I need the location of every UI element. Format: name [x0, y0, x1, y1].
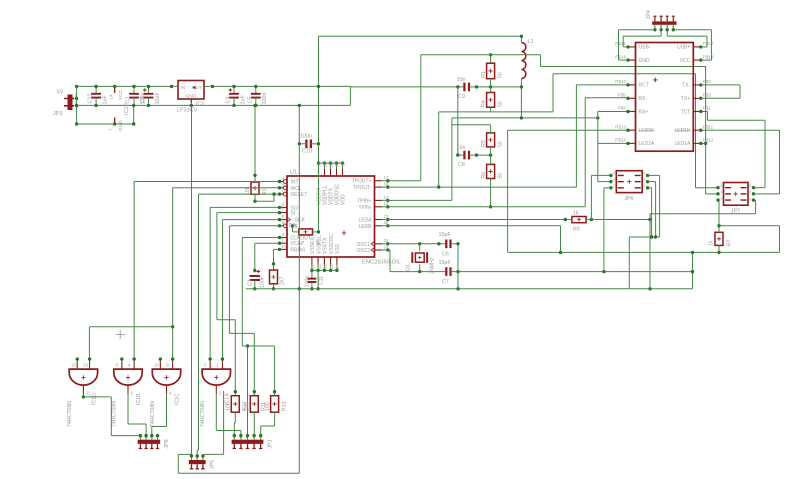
junction jp6 bus b	[654, 235, 657, 238]
gate IC1D body	[69, 369, 97, 385]
junction JP7 left pin	[716, 198, 719, 201]
junction	[254, 104, 257, 107]
gate IC1A input 2 junction	[208, 357, 211, 360]
junction JP7 right pin	[752, 186, 755, 189]
connector JP8 pin 3 post	[150, 444, 153, 449]
U1 pin 6 SO stub	[280, 206, 288, 208]
wire R7 top lead	[718, 200, 720, 232]
svg-text:P$5: P$5	[618, 93, 627, 98]
junction INT pin	[278, 180, 281, 183]
connector JP5 pin 3 junction	[201, 454, 204, 457]
junction C1	[253, 269, 256, 272]
wire VCC stub	[701, 59, 712, 61]
connector JP8 pin 1 junction	[139, 434, 142, 437]
resistor R3 origin	[488, 69, 492, 73]
svg-text:R12: R12	[281, 401, 287, 411]
junction R5 R6 mid	[489, 153, 492, 156]
svg-text:C3: C3	[140, 97, 146, 104]
svg-text:P$16: P$16	[615, 54, 626, 59]
U1 pin 1 VCAP stub	[280, 242, 288, 244]
wire R12 jog	[261, 425, 275, 427]
connector JP7 inner pin right	[741, 187, 747, 189]
capacitor C4 polarity +	[229, 88, 233, 92]
wire USB+ stub	[701, 46, 707, 48]
svg-text:11: 11	[86, 391, 91, 396]
wire CS	[229, 225, 279, 227]
connector JP6 inner pin left	[618, 174, 624, 176]
gate IC1C output pin 8 stub	[166, 385, 168, 393]
junction crystal top	[418, 242, 421, 245]
wire SO vertical	[209, 207, 211, 359]
gate IC1B input wire	[121, 359, 123, 361]
wire LEDB riser	[560, 226, 562, 253]
junction regulator gnd	[190, 104, 193, 107]
junction P$4	[626, 110, 629, 113]
U1 pin 16 TPOUT- stub	[375, 186, 383, 188]
wire OSC2 stub	[382, 249, 390, 251]
connector JP1 pin 4 wire	[253, 436, 255, 440]
svg-text:13: 13	[71, 363, 76, 368]
capacitor C2 lead	[133, 86, 135, 93]
U1 pin 10 RESET stub	[280, 193, 284, 195]
svg-text:C5: C5	[247, 97, 253, 104]
junction trunk C10v	[298, 287, 301, 290]
capacitor C12 lead	[95, 98, 97, 106]
wire VSSRX pin	[311, 265, 313, 271]
resistor R10 origin	[233, 402, 237, 406]
connector JP8 pin 1 post	[139, 444, 142, 449]
wire TPOUT-	[382, 186, 576, 188]
R1 origin	[304, 230, 308, 234]
connector JP1 pin 2 wire	[240, 436, 242, 440]
svg-text:IC1B: IC1B	[136, 393, 142, 405]
wire TPOUT- vertical	[575, 85, 577, 187]
junction R7 bottom	[717, 251, 720, 254]
wire C6 right lead	[451, 243, 459, 245]
junction JP4 pin 2	[659, 28, 662, 31]
gate IC1B input wire	[133, 359, 135, 361]
gate IC1B body	[114, 369, 142, 385]
svg-text:2k7: 2k7	[280, 277, 286, 285]
junction JP7 right pin	[752, 192, 755, 195]
block pin LED1K stub	[693, 129, 701, 131]
junction RBIAS pin	[278, 248, 281, 251]
svg-text:USB+: USB+	[677, 45, 690, 51]
junction C8 left	[456, 153, 459, 156]
svg-text:14: 14	[282, 244, 287, 249]
junction L1 at bias line	[520, 116, 523, 119]
svg-text:JP8: JP8	[164, 439, 170, 448]
wire JP7 pin3R horizontal	[650, 213, 756, 215]
wire C8 right lead	[469, 154, 491, 156]
connector JP1 pin 5 post	[259, 444, 262, 449]
junction pin OSC2	[386, 248, 389, 251]
wire CLKOUT vertical	[241, 238, 243, 347]
svg-text:10uF: 10uF	[260, 275, 266, 288]
wire R2 top	[254, 105, 256, 182]
junction VSS gnd	[316, 287, 319, 290]
U1 bottom pin VSSTX stub	[323, 257, 325, 265]
junction	[232, 85, 235, 88]
connector JP6 origin	[627, 179, 631, 183]
connector JP6 body	[616, 171, 642, 193]
wire WOL	[173, 187, 280, 189]
svg-text:TPIN+: TPIN+	[357, 198, 371, 204]
wire R6 bottom lead	[490, 179, 492, 207]
junction JP6 left pin	[609, 186, 612, 189]
wire VSS pin	[336, 265, 338, 271]
junction VSS	[335, 269, 338, 272]
wire INT vertical	[133, 182, 135, 360]
junction L1 bottom at bias rail	[520, 85, 523, 88]
gate IC1C input 9 junction	[171, 357, 174, 360]
svg-text:IC1C: IC1C	[175, 393, 181, 405]
junction L1 top	[520, 35, 523, 38]
U1 pin 5 WOL stub	[280, 187, 284, 189]
wire TPOUT+ step	[540, 55, 542, 67]
svg-text:C4: C4	[226, 97, 232, 104]
wire Q1 top lead	[419, 244, 421, 251]
wire R3 bottom lead	[490, 79, 492, 87]
resistor 2k7 body	[270, 270, 278, 284]
wire VDD pin	[342, 163, 344, 168]
svg-text:LED2A: LED2A	[639, 141, 656, 147]
wire C10 branch down	[298, 144, 300, 289]
svg-text:3: 3	[643, 178, 645, 182]
svg-text:TX-: TX-	[682, 83, 690, 89]
capacitor C12 lead	[95, 86, 97, 93]
svg-text:RCT: RCT	[639, 83, 649, 89]
svg-text:P$4: P$4	[618, 106, 627, 111]
wire TPOUT- vertical	[438, 112, 440, 187]
wire VSSTX pin	[323, 265, 325, 271]
wire bias rail right	[469, 86, 521, 88]
wire C10 left lead	[299, 143, 306, 145]
svg-text:L1: L1	[528, 39, 534, 45]
resistor R4 body	[487, 93, 495, 108]
connector JP8 bar	[138, 440, 161, 444]
svg-text:P$10: P$10	[615, 79, 626, 84]
svg-text:C11: C11	[319, 276, 325, 285]
wire ground trunk	[246, 288, 693, 290]
junction P$3	[699, 83, 702, 86]
junction OSC1 C6	[437, 242, 440, 245]
junction R2 at rail	[253, 104, 256, 107]
wire VSSOSC pin	[330, 265, 332, 271]
junction C9 right	[475, 85, 478, 88]
wire VDDTX pin	[330, 163, 332, 168]
wire decoupling vertical	[457, 87, 459, 155]
wire left vertical	[76, 86, 78, 124]
connector JP5 pin 3 wire	[202, 456, 204, 460]
gate IC1D input pin 12 stub	[89, 362, 91, 370]
U1 top pin VDD stub	[342, 169, 344, 177]
svg-text:SI: SI	[291, 211, 296, 217]
svg-text:1uF: 1uF	[240, 95, 246, 105]
gate IC1A input 1 junction	[221, 357, 224, 360]
junction LEDB tap	[559, 251, 562, 254]
R7 origin	[717, 237, 721, 241]
junction VDDPLL	[323, 161, 326, 164]
connector JP1 pin 5 wire	[260, 436, 262, 440]
resistor R7 body	[715, 232, 723, 245]
junction	[94, 85, 97, 88]
wire JP7 pin1R	[754, 187, 766, 189]
wire VDDPLL pin	[324, 163, 326, 168]
junction R2 top node	[253, 174, 256, 177]
wire VDD vertical	[318, 36, 320, 163]
wire JP6 pin2R vertical	[655, 182, 657, 237]
connector JP8 pin 4 wire	[157, 436, 159, 440]
svg-text:TPOUT-: TPOUT-	[353, 185, 372, 191]
junction JP6 right pin	[646, 186, 649, 189]
svg-text:C1: C1	[248, 279, 254, 286]
junction pin TPOUT-	[386, 185, 389, 188]
junction 2k7 gnd	[272, 287, 275, 290]
block pin TX- stub	[693, 84, 701, 86]
inductor L1	[521, 43, 526, 79]
svg-text:R8: R8	[573, 227, 580, 233]
wire R3 top lead	[490, 55, 492, 63]
wire R1 to CS	[292, 226, 294, 232]
junction R10 top	[234, 390, 237, 393]
block pin VCC stub	[693, 59, 701, 61]
wire R8 right lead	[586, 219, 591, 221]
connector JP7 inner pin left	[725, 187, 731, 189]
svg-text:1k: 1k	[573, 211, 579, 217]
wire IC1C out	[166, 394, 168, 427]
svg-text:TPIN-: TPIN-	[358, 205, 371, 211]
wire TX+	[701, 97, 740, 99]
connector JP5 pin 2 post	[196, 464, 199, 469]
junction P$2	[699, 97, 702, 100]
wire branch down	[779, 226, 781, 253]
junction CS pin	[278, 224, 281, 227]
junction JP1 pin3 branch	[246, 344, 249, 347]
wire JP7pin3R to gnd vertical	[649, 214, 651, 289]
wire CLKOUT	[242, 237, 279, 239]
svg-text:P$14: P$14	[615, 138, 626, 143]
svg-text:50: 50	[497, 72, 503, 78]
wire R5 top lead	[490, 125, 492, 133]
wire JP4 pin4 right	[673, 29, 711, 31]
wire TPIN-	[382, 206, 585, 208]
wire R10 top vertical	[234, 320, 236, 396]
capacitor C3 plates	[144, 94, 154, 98]
wire LEDB	[382, 225, 561, 227]
wire OSC2 long to right	[451, 271, 693, 273]
wire JP6 pin1 horizontal	[591, 174, 611, 176]
wire LED2K	[508, 129, 628, 131]
wire R7 bottom lead	[718, 245, 720, 252]
wire JP1 pin1 drop	[233, 423, 235, 436]
gate IC1A input wire	[221, 359, 223, 361]
junction VDD at rail	[317, 85, 320, 88]
block pin TCT stub	[693, 111, 701, 113]
wire RESET vertical	[198, 194, 200, 450]
connector JP1 pin 2 post	[239, 444, 242, 449]
svg-text:USB-: USB-	[639, 45, 651, 51]
svg-text:22: 22	[335, 162, 340, 167]
junction C1 gnd	[253, 287, 256, 290]
gate IC1C origin	[164, 375, 168, 379]
connector JP8 pin 4 junction	[156, 434, 159, 437]
wire C1 bottom lead	[254, 280, 256, 289]
wire VDD bus	[318, 162, 343, 164]
wire JP1 pin2 drop	[240, 431, 242, 436]
U1 pin 17 TPOUT+ stub	[375, 180, 383, 182]
wire step down at x350	[349, 86, 351, 105]
wire LEDA	[382, 219, 565, 221]
junction RESET pin	[278, 192, 281, 195]
U1 bottom pin VSSRX stub	[311, 257, 313, 265]
wire pin3L branch right	[719, 225, 780, 227]
U1 top pin VDDRX stub	[318, 169, 320, 177]
svg-text:1: 1	[749, 196, 751, 200]
svg-text:100: 100	[226, 402, 232, 411]
wire RBIAS resistor top	[273, 249, 275, 270]
junction C10 at rail	[298, 104, 301, 107]
junction C7 right	[456, 270, 459, 273]
wire OSC2 riser	[389, 250, 391, 272]
connector JP5 pin 1 wire	[191, 456, 193, 460]
svg-text:5: 5	[643, 172, 645, 176]
svg-text:TCT: TCT	[681, 109, 691, 115]
svg-text:14: 14	[108, 94, 113, 99]
crystal Q1	[412, 252, 427, 263]
wire IC1D out	[82, 394, 84, 397]
svg-text:U1: U1	[290, 170, 297, 176]
junction R8 right	[590, 218, 593, 221]
wire JP4 pin3 right	[667, 35, 707, 37]
svg-text:100k: 100k	[286, 223, 298, 229]
junction JP6 right pin	[646, 174, 649, 177]
junction VDDRX	[317, 161, 320, 164]
JP4 pin 1 post	[653, 16, 656, 21]
capacitor C3 lead	[148, 86, 150, 93]
svg-text:R1: R1	[317, 238, 323, 245]
wire TX loop	[739, 85, 741, 98]
gate IC1A output pin 3 stub	[215, 385, 217, 393]
wire VSS to gnd link	[317, 270, 319, 288]
wire JP3 pin2	[75, 98, 77, 100]
wire RX+ LED2A vertical	[597, 112, 599, 182]
wire R8 left lead	[565, 219, 572, 221]
junction VCC pin	[113, 85, 116, 88]
wire JP5 pin3 vertical	[223, 391, 225, 454]
connector JP3 5V input	[64, 95, 74, 111]
wire RX- vertical	[584, 98, 586, 207]
svg-text:2: 2	[720, 196, 722, 200]
svg-text:4: 4	[720, 190, 722, 194]
capacitor C5 lead	[255, 86, 257, 93]
svg-text:VCC: VCC	[680, 58, 691, 64]
svg-text:P$18: P$18	[703, 54, 714, 59]
wire to USB+ pin	[706, 36, 708, 47]
junction JP7 left pin	[716, 192, 719, 195]
svg-text:P$13: P$13	[615, 124, 626, 129]
connector JP1 pin 1 wire	[233, 436, 235, 440]
wire JP3 pin1	[75, 105, 77, 107]
svg-text:6: 6	[613, 172, 615, 176]
svg-text:25MHz: 25MHz	[430, 257, 436, 274]
wire OSC2 horizontal	[390, 271, 446, 273]
wire JP6 right bus	[629, 236, 659, 238]
gate IC1D output pin 11 stub	[82, 385, 84, 393]
svg-text:6: 6	[720, 184, 722, 188]
svg-text:P$1: P$1	[703, 106, 712, 111]
wire VCAP	[255, 242, 280, 244]
wire JP6 bus to gnd	[628, 237, 630, 289]
svg-text:19: 19	[317, 162, 322, 167]
svg-text:R4: R4	[481, 100, 487, 107]
wire RX+	[598, 111, 628, 113]
U1 top pin VDDPLL stub	[324, 169, 326, 177]
junction P$12	[699, 142, 702, 145]
junction riser tap	[691, 251, 694, 254]
junction rail after OUT	[211, 85, 214, 88]
junction riser top	[132, 104, 135, 107]
wire JP4 pin2 drop	[660, 30, 662, 36]
junction VCAP pin	[278, 242, 281, 245]
svg-text:R5: R5	[481, 140, 487, 147]
gate IC1C body	[152, 369, 180, 385]
wire Q1 bottom lead	[419, 264, 421, 271]
junction R4 top	[489, 85, 492, 88]
U1 pin 4 INT stub	[280, 181, 284, 183]
junction R8 left	[564, 218, 567, 221]
svg-text:GND: GND	[186, 93, 197, 99]
svg-text:C2: C2	[126, 97, 132, 104]
svg-text:12: 12	[83, 363, 88, 368]
resistor R5 origin	[488, 138, 492, 142]
junction C9 left	[456, 85, 459, 88]
wire VSS bus	[312, 269, 337, 271]
gate IC1A input pin 2 stub	[209, 362, 211, 370]
wire SI vertical	[216, 213, 218, 320]
gate IC1B output pin 6 stub	[127, 385, 129, 393]
wire C11 top lead	[311, 270, 313, 278]
wire JP4 pin1 left	[619, 29, 655, 31]
connector JP8 pin 2 junction	[144, 434, 147, 437]
junction R1 at VDD	[317, 230, 320, 233]
svg-text:TPOUT+: TPOUT+	[352, 179, 372, 185]
svg-text:GND: GND	[118, 120, 124, 131]
wire TPIN+	[382, 199, 452, 201]
gate IC1B input 4 junction	[132, 357, 135, 360]
U1 pin 27 LEDA stub	[375, 219, 383, 221]
wire CLKOUT horizontal	[242, 345, 274, 347]
junction P$11	[699, 129, 702, 132]
junction jp6 bus a	[650, 235, 653, 238]
wire C11 bottom lead	[311, 282, 313, 289]
svg-text:JP1: JP1	[267, 439, 273, 448]
connector JP8 pin 3 junction	[150, 434, 153, 437]
U1 pin 24 OSC2 stub	[375, 249, 383, 251]
capacitor C5 lead	[255, 98, 257, 106]
U1 OSC clock-in mark	[371, 248, 374, 253]
svg-text:74HCT08N: 74HCT08N	[67, 401, 73, 427]
wire TCT vertical	[764, 120, 766, 188]
svg-text:LED1K: LED1K	[674, 128, 691, 134]
svg-text:P$2: P$2	[703, 93, 712, 98]
capacitor C1 plates	[250, 276, 260, 280]
junction VSSTX	[323, 269, 326, 272]
wire center tap line	[508, 251, 780, 253]
gate IC1D input wire	[89, 359, 91, 361]
connector JP8 pin 3 wire	[151, 436, 153, 440]
svg-text:10n: 10n	[457, 145, 466, 151]
